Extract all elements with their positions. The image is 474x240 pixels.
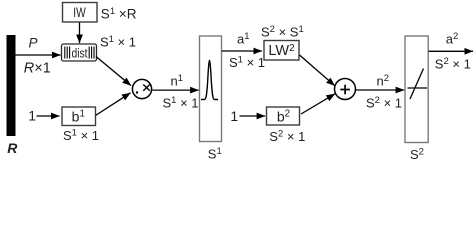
label n2 (377, 73, 390, 89)
svg-text:S2 × 1: S2 × 1 (366, 95, 402, 111)
svg-text:S1 × 1: S1 × 1 (63, 127, 99, 143)
wire a1 (222, 50, 262, 52)
svg-text:1: 1 (28, 107, 36, 123)
wire a2 output (429, 50, 474, 52)
svg-text:n1: n1 (171, 73, 184, 89)
input bar P/R (7, 35, 16, 136)
label S2 (layer2 size) (410, 146, 424, 162)
svg-text:S1 × 1: S1 × 1 (100, 34, 136, 50)
label S2 x 1 (a2) (435, 56, 471, 72)
label R (input dimension) (7, 140, 18, 156)
label S1 x 1 (a1) (229, 55, 265, 71)
bias box b1 (62, 107, 96, 126)
svg-text:n2: n2 (377, 73, 390, 89)
svg-text:P: P (29, 36, 38, 51)
purelin transfer icon (408, 69, 428, 100)
weight box LW2 (264, 41, 299, 61)
label S2 x 1 (b2) (269, 129, 305, 145)
wire n2 (356, 89, 405, 91)
wire b1 to multiply (96, 93, 131, 116)
svg-text:S2 × 1: S2 × 1 (269, 129, 305, 145)
label S2 x 1 (n2) (366, 95, 402, 111)
weight box IW (63, 3, 98, 23)
svg-text:S1 × 1: S1 × 1 (163, 95, 199, 111)
svg-text:S2 × S1: S2 × S1 (261, 24, 304, 40)
label a2 (446, 31, 459, 47)
svg-text:a2: a2 (446, 31, 459, 47)
svg-text:S1 × 1: S1 × 1 (229, 55, 265, 71)
wire dist to multiply (96, 57, 131, 86)
label S1 x R (101, 6, 137, 22)
svg-text:S1 ×R: S1 ×R (101, 6, 137, 22)
layer2 box (405, 36, 428, 143)
label S1 x 1 (dist output) (100, 34, 136, 50)
multiply junction .* (132, 79, 151, 98)
label a1 (237, 31, 250, 47)
wire 1 to b2 (240, 115, 266, 117)
wire b2 to sum (301, 94, 335, 114)
wire 1 to b1 (37, 115, 60, 117)
svg-text:dist: dist (72, 45, 88, 60)
label R x 1 (24, 61, 51, 77)
label n1 (171, 73, 184, 89)
label 1 (bias input b1) (28, 107, 36, 123)
label S1 x 1 (n1) (163, 95, 199, 111)
label S1 (layer1 size) (208, 146, 222, 162)
wire n1 (152, 89, 198, 91)
radbas transfer curve (201, 61, 218, 100)
wire LW2 to sum (300, 55, 335, 86)
sum junction + (335, 79, 356, 100)
svg-text:R: R (7, 140, 18, 156)
svg-text:R×1: R×1 (24, 61, 51, 77)
dist box ||dist|| (62, 44, 97, 61)
wire P input (16, 54, 61, 56)
label S1 x 1 (b1) (63, 127, 99, 143)
label P (29, 36, 38, 51)
svg-text:1: 1 (230, 108, 238, 124)
bias box b2 (267, 107, 300, 125)
svg-text:IW: IW (73, 5, 86, 20)
label 1 (bias input b2) (230, 108, 238, 124)
wire IW to dist (79, 23, 81, 44)
svg-text:S1: S1 (208, 146, 222, 162)
svg-text:a1: a1 (237, 31, 250, 47)
layer1 box (200, 36, 222, 142)
svg-text:S2 × 1: S2 × 1 (435, 56, 471, 72)
svg-text:S2: S2 (410, 146, 424, 162)
label S2 x S1 (261, 24, 304, 40)
